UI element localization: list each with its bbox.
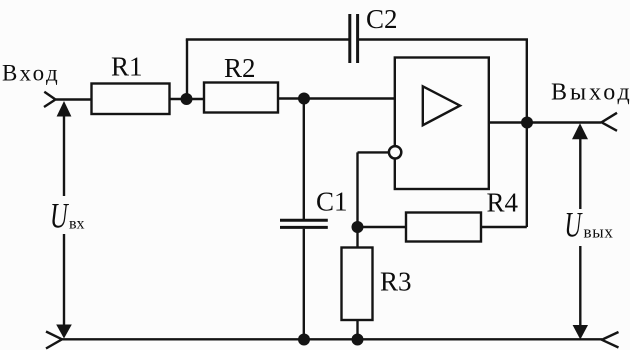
svg-text:R4: R4	[487, 188, 519, 218]
svg-text:C2: C2	[366, 4, 398, 34]
svg-text:U: U	[50, 196, 69, 236]
svg-text:C1: C1	[316, 187, 348, 217]
svg-text:R3: R3	[380, 267, 412, 297]
svg-text:U: U	[565, 204, 583, 244]
svg-text:R2: R2	[224, 53, 256, 83]
svg-text:вых: вых	[584, 223, 614, 242]
svg-text:Вход: Вход	[2, 61, 60, 86]
svg-text:вх: вх	[69, 216, 85, 233]
svg-text:Выход: Выход	[551, 80, 630, 106]
svg-text:R1: R1	[111, 52, 143, 82]
